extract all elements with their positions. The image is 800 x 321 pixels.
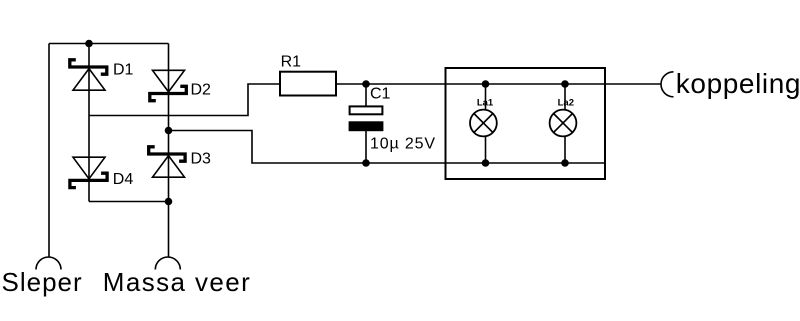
svg-text:Massa veer: Massa veer [103, 267, 251, 297]
wire La2 top stem [564, 84, 566, 110]
wire top rail [49, 43, 169, 45]
svg-text:Sleper: Sleper [2, 267, 83, 297]
junction node La1 top [482, 80, 490, 88]
terminal Massa veer [155, 257, 180, 270]
junction node C1 bottom [362, 159, 370, 167]
wire R1 to koppeling [336, 83, 661, 85]
zener diode D3 [149, 147, 185, 177]
zener diode D1 [70, 60, 107, 90]
svg-text:R1: R1 [281, 54, 302, 71]
wire D2/D3 column to Massa veer [168, 44, 170, 258]
junction node La2 top [561, 80, 569, 88]
junction node La1 bottom [482, 159, 490, 167]
junction node top rail / D1 [85, 40, 93, 48]
wire node to C1 bottom rail [169, 131, 606, 164]
resistor R1 [280, 72, 336, 96]
svg-text:D2: D2 [191, 82, 212, 99]
wire C1 bottom stem [365, 131, 367, 164]
wire C1 top stem [365, 84, 367, 107]
svg-text:La1: La1 [477, 98, 494, 109]
svg-text:10µ 25V: 10µ 25V [370, 136, 436, 153]
terminal koppeling [661, 72, 674, 97]
svg-text:D1: D1 [113, 62, 134, 79]
lamp La2 [550, 110, 577, 137]
wire bridge bottom [89, 201, 169, 203]
svg-text:D3: D3 [191, 151, 212, 168]
junction node La2 bottom [561, 159, 569, 167]
wire La2 bottom stem [564, 136, 566, 163]
svg-text:La2: La2 [558, 98, 574, 109]
svg-text:C1: C1 [370, 86, 391, 103]
junction node C1 top [362, 80, 370, 88]
zener diode D2 [150, 70, 187, 100]
lamp La1 [470, 110, 497, 137]
svg-text:koppeling: koppeling [676, 68, 800, 99]
svg-text:D4: D4 [113, 171, 134, 188]
wire La1 top stem [485, 84, 487, 110]
lamp housing box [446, 68, 606, 179]
wire mid horizontal to R1 [89, 84, 280, 116]
junction node D2/D3 mid [165, 127, 173, 135]
capacitor C1 [349, 106, 384, 131]
wire D1/D4 column [88, 44, 90, 202]
terminal Sleper [36, 257, 61, 270]
junction node bridge bottom [165, 198, 173, 206]
zener diode D4 [70, 157, 107, 187]
wire La1 bottom stem [485, 136, 487, 163]
wire left column to Sleper [48, 44, 50, 258]
